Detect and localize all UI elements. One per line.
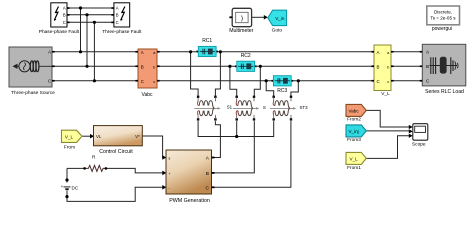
svg-text:A: A — [141, 50, 144, 55]
svg-text:RC2: RC2 — [241, 53, 251, 59]
svg-text:RC3: RC3 — [277, 88, 287, 94]
svg-text:+: + — [61, 184, 64, 189]
svg-text:From2: From2 — [347, 117, 361, 123]
svg-text:Three-phase Fault: Three-phase Fault — [102, 29, 142, 35]
svg-text:VL: VL — [96, 134, 102, 139]
svg-text:S1: S1 — [227, 104, 233, 109]
svg-text:B: B — [377, 64, 380, 69]
svg-text:c: c — [387, 79, 389, 84]
svg-text:C: C — [141, 79, 144, 84]
svg-text:From1: From1 — [347, 165, 361, 171]
svg-text:ST3: ST3 — [300, 105, 309, 110]
svg-text:Series RLC Load: Series RLC Load — [425, 89, 464, 95]
svg-text:B: B — [141, 64, 144, 69]
svg-text:Discrete,: Discrete, — [434, 9, 452, 14]
svg-text:powergui: powergui — [432, 26, 452, 32]
svg-text:S: S — [263, 105, 266, 110]
svg-text:DC: DC — [72, 186, 79, 191]
svg-text:Vabc: Vabc — [349, 108, 360, 113]
svg-text:From3: From3 — [347, 137, 361, 143]
svg-text:V_L: V_L — [381, 91, 390, 97]
svg-text:C: C — [48, 79, 51, 84]
svg-text:V_in: V_in — [275, 16, 285, 21]
svg-text:B: B — [116, 12, 119, 17]
svg-text:C: C — [116, 20, 119, 25]
svg-text:B: B — [426, 64, 429, 69]
svg-text:V_inj: V_inj — [348, 129, 358, 134]
svg-text:A: A — [48, 50, 51, 55]
svg-text:A: A — [116, 6, 119, 11]
svg-text:C: C — [63, 20, 66, 25]
svg-text:From: From — [64, 144, 75, 150]
svg-text:+: + — [169, 172, 171, 176]
svg-text:A: A — [377, 50, 380, 55]
svg-text:V_L: V_L — [65, 134, 74, 139]
svg-text:Phase-phase Fault: Phase-phase Fault — [39, 29, 80, 35]
svg-text:Multimeter: Multimeter — [229, 28, 253, 34]
svg-text:Vabc: Vabc — [141, 92, 153, 98]
svg-text:Ts = 2e-05 s: Ts = 2e-05 s — [430, 16, 456, 21]
svg-text:Three-phase Source: Three-phase Source — [11, 90, 55, 96]
svg-text:B: B — [206, 171, 209, 177]
svg-text:V*: V* — [135, 134, 140, 139]
svg-text:Goto: Goto — [272, 28, 283, 34]
svg-text:R: R — [92, 155, 96, 161]
svg-text:B: B — [63, 12, 66, 17]
svg-text:C: C — [206, 185, 210, 191]
svg-text:PWM Generation: PWM Generation — [169, 198, 210, 204]
svg-text:c: c — [153, 79, 155, 84]
svg-text:Control Circuit: Control Circuit — [99, 149, 133, 155]
svg-text:V_L: V_L — [350, 156, 359, 161]
svg-text:RC1: RC1 — [202, 38, 212, 44]
svg-text:s: s — [169, 157, 171, 161]
svg-text:C: C — [377, 79, 380, 84]
svg-text:Scope: Scope — [412, 141, 426, 147]
svg-text:A: A — [63, 6, 66, 11]
svg-text:): ) — [241, 15, 243, 22]
